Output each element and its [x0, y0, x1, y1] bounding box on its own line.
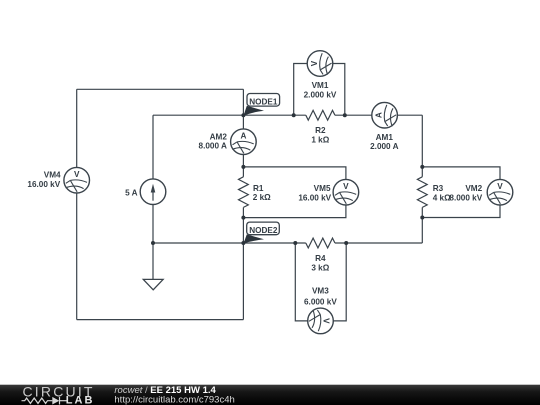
- resistor R3: [417, 177, 427, 208]
- footer title text: [114, 385, 234, 405]
- node junction dot R2 right: [343, 113, 347, 117]
- svg-text:VM2: VM2: [465, 184, 482, 193]
- wire VM2 parallel loop: [422, 167, 500, 218]
- node junction dot R3 top: [420, 165, 424, 169]
- svg-text:A: A: [240, 132, 246, 141]
- svg-text:R1: R1: [253, 184, 264, 193]
- svg-text:2.000 kV: 2.000 kV: [304, 91, 337, 100]
- svg-text:1 kΩ: 1 kΩ: [311, 136, 329, 145]
- label R3 value: [433, 184, 451, 203]
- label VM2 value: [449, 184, 482, 203]
- wire current source branch: [152, 115, 154, 243]
- resistor R2: [306, 110, 335, 120]
- wire mid bus NODE1 to R2: [243, 114, 305, 116]
- node junction dot R1 bottom: [241, 216, 245, 220]
- svg-text:8.000 kV: 8.000 kV: [449, 193, 482, 202]
- label VM3 value: [304, 287, 337, 307]
- node junction dot R4 left: [293, 241, 297, 245]
- label R1 value: [253, 184, 271, 202]
- voltmeter VM5: [333, 179, 359, 205]
- current source I1 5A: [140, 179, 166, 205]
- node junction dot source bottom: [151, 241, 155, 245]
- wire bottom left: [77, 319, 244, 321]
- svg-text:A: A: [375, 112, 384, 118]
- svg-text:NODE1: NODE1: [249, 97, 278, 106]
- svg-text:5 A: 5 A: [125, 189, 138, 198]
- wire NODE2 bus left segment: [153, 242, 306, 244]
- svg-text:3 kΩ: 3 kΩ: [311, 264, 329, 273]
- svg-text:LAB: LAB: [66, 395, 95, 405]
- svg-text:AM1: AM1: [376, 133, 394, 142]
- svg-text:VM5: VM5: [314, 184, 331, 193]
- label R4 value: [311, 254, 329, 273]
- node NODE1 flag: [243, 94, 279, 117]
- wire right vertical upper (AM1 corner to R3): [421, 115, 423, 177]
- svg-text:6.000 kV: 6.000 kV: [304, 297, 337, 306]
- svg-text:VM1: VM1: [312, 81, 329, 90]
- label VM4 value: [27, 171, 61, 189]
- svg-text:2.000 A: 2.000 A: [370, 142, 398, 151]
- node junction dot R4 right: [344, 241, 348, 245]
- ammeter AM1: [372, 102, 398, 128]
- wire top bus (VM4 top to NODE1 drop): [77, 88, 244, 90]
- footer bar: [0, 385, 540, 405]
- node junction dot NODE1: [241, 113, 245, 117]
- svg-text:R4: R4: [315, 254, 326, 263]
- label AM2 value: [199, 133, 228, 151]
- wire VM1 parallel loop: [294, 64, 345, 116]
- wire NODE2 bus right segment: [335, 242, 422, 244]
- svg-text:4 kΩ: 4 kΩ: [433, 193, 451, 202]
- svg-text:8.000 A: 8.000 A: [199, 142, 227, 151]
- svg-text:16.00 kV: 16.00 kV: [298, 194, 331, 203]
- ground: [143, 279, 163, 289]
- voltmeter VM1: [307, 51, 333, 77]
- wire mid bus R2 to right corner through AM1: [335, 114, 422, 116]
- node junction dot NODE2: [241, 241, 245, 245]
- voltmeter VM4: [64, 167, 90, 193]
- svg-text:R3: R3: [433, 184, 444, 193]
- label AM1 value: [370, 133, 398, 151]
- wire VM5 parallel loop: [243, 167, 346, 218]
- label VM5 value: [298, 184, 331, 202]
- wire mid bus left (current source to NODE1): [153, 114, 243, 116]
- svg-text:http://circuitlab.com/c793c4h: http://circuitlab.com/c793c4h: [114, 395, 234, 405]
- svg-text:V: V: [343, 182, 349, 191]
- node junction dot R1 top: [241, 165, 245, 169]
- svg-text:16.00 kV: 16.00 kV: [27, 180, 60, 189]
- wire right vertical lower (R3 to NODE2 bus): [421, 207, 423, 243]
- wire R1 lower lead to NODE2: [242, 207, 244, 243]
- wire ground lead: [152, 243, 154, 279]
- svg-text:V: V: [497, 182, 503, 191]
- label R2 value: [311, 126, 329, 144]
- svg-text:VM4: VM4: [44, 171, 61, 180]
- wire R1 upper lead: [242, 167, 244, 177]
- node junction dot R2 left: [292, 113, 296, 117]
- ammeter AM2: [231, 129, 257, 155]
- voltmeter VM3: [308, 308, 334, 334]
- svg-text:V: V: [322, 318, 331, 324]
- svg-text:R2: R2: [315, 126, 326, 135]
- resistor R4: [306, 238, 335, 248]
- svg-text:NODE2: NODE2: [249, 226, 278, 235]
- voltmeter VM2: [487, 179, 513, 205]
- svg-text:AM2: AM2: [210, 133, 228, 142]
- wire left branch through VM4: [76, 89, 78, 319]
- CircuitLab logo resistor-diode icon: [22, 397, 67, 405]
- svg-text:2 kΩ: 2 kΩ: [253, 193, 271, 202]
- wire VM3 parallel loop: [295, 243, 346, 321]
- wire NODE1 drop through AM2: [242, 89, 244, 167]
- svg-text:V: V: [310, 60, 319, 66]
- CircuitLab logo wordmark: [23, 384, 95, 405]
- wire bottom to NODE2: [242, 243, 244, 320]
- node junction dot R3 bottom: [420, 216, 424, 220]
- node NODE2 flag: [243, 222, 279, 244]
- svg-text:V: V: [74, 170, 80, 179]
- resistor R1: [239, 177, 249, 208]
- svg-text:VM3: VM3: [312, 287, 329, 296]
- label VM1 value: [304, 81, 337, 100]
